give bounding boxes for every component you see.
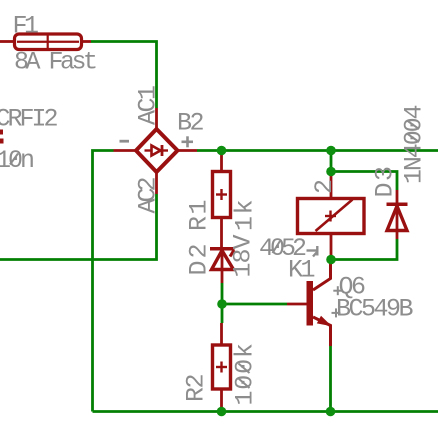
svg-text:18V: 18V [229,234,258,277]
svg-text:F1: F1 [13,12,39,41]
svg-text:1k: 1k [231,198,260,231]
pin label 1 [307,246,318,257]
junction node D2/R2/base [217,299,227,309]
svg-text:8A Fast: 8A Fast [14,48,96,77]
svg-text:1N4004: 1N4004 [400,105,429,184]
slashes of zeros in 1N4004 [407,134,419,143]
pin label plus [182,136,194,147]
bridge rectifier B2 [114,108,198,194]
wire bottom rail [93,410,438,413]
origin cross BC549B [332,308,341,317]
svg-text:100k: 100k [231,342,260,405]
svg-text:B2: B2 [177,109,204,138]
svg-text:R1: R1 [185,198,214,231]
junction node relay pin1 / D3 / collector [326,255,336,265]
svg-text:D3: D3 [371,164,400,197]
svg-text:AC2: AC2 [134,177,163,213]
svg-text:4052: 4052 [259,234,306,263]
capacitor CRFI2 stubs at left edge [0,130,4,144]
resistor R2 [213,323,231,412]
svg-text:2: 2 [310,179,339,194]
fuse F1 [15,34,92,50]
junction node emitter rail [326,407,336,417]
wire rail to relay node [330,151,333,172]
wire D2 to node [221,283,224,304]
wire fuse left lead [0,40,15,43]
pin label minus [120,140,130,143]
junction node at R1 top [217,146,227,156]
wire AC2 to left edge [0,194,157,260]
svg-text:CRFI2: CRFI2 [0,105,58,134]
junction node at relay rail [326,146,336,156]
svg-text:D2: D2 [185,241,214,275]
wire node to base [222,303,287,306]
junction node relay pin2 / D3 [326,167,336,177]
svg-text:R2: R2 [182,374,211,402]
slash of zero in 4052 [273,241,281,253]
relay coil K1 [298,172,365,260]
wire bridge minus to bottom rail [93,151,114,412]
zener diode D2 [210,248,235,283]
svg-text:BC549B: BC549B [336,295,414,324]
wire fuse to bridge top [91,42,157,109]
junction node R2 bottom [217,407,227,417]
wire emitter to bottom rail [329,346,332,412]
slashes of zeros in 100k [239,379,250,389]
transistor Q6 [287,260,332,347]
wire node to R2 [221,304,224,323]
origin cross Q6 [333,286,342,295]
resistor R1 [213,151,231,249]
wire D3 bottom to relay pin1 node [331,239,397,260]
wire plus rail [197,149,438,152]
wire relay node to D3 top [331,172,397,191]
slash of zero in 10n [10,154,18,165]
svg-text:AC1: AC1 [134,86,163,125]
diode D3 [387,190,408,239]
svg-text:10n: 10n [0,146,33,175]
